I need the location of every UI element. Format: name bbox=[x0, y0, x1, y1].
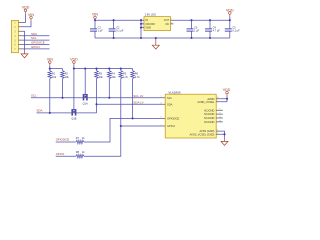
junction VDD stem/Q1B gate bbox=[73, 68, 75, 70]
power symbol VIN (connector pin 2) bbox=[28, 13, 34, 21]
wire ground rail bbox=[95, 37, 230, 39]
resistor R7 bbox=[76, 136, 85, 144]
svg-text:10k: 10k bbox=[112, 75, 117, 79]
resistor R1 bbox=[48, 69, 57, 80]
node GPIO0/CE (series resistor) bbox=[56, 138, 76, 142]
svg-text:SDA LV: SDA LV bbox=[133, 101, 143, 105]
svg-text:GND: GND bbox=[145, 26, 151, 30]
svg-text:R5: R5 bbox=[123, 71, 127, 75]
wire pin2 to VIN bbox=[23, 21, 31, 27]
wire R7 to IC bbox=[84, 118, 160, 142]
junction rail/C2 bbox=[113, 19, 115, 21]
svg-text:2.8V LDO: 2.8V LDO bbox=[145, 13, 156, 17]
wire R3 to SDA LV bbox=[96, 79, 98, 113]
svg-text:GPIO0/CE: GPIO0/CE bbox=[167, 117, 180, 121]
svg-text:6: 6 bbox=[161, 117, 162, 119]
node SCL (level shifter left) bbox=[31, 94, 80, 98]
power symbol VDD (sensor supply) bbox=[223, 88, 231, 96]
svg-text:GPIO1: GPIO1 bbox=[31, 45, 40, 49]
resistor R3 bbox=[95, 69, 104, 80]
svg-text:SCL LV: SCL LV bbox=[133, 94, 143, 98]
junction VDD rail/Q1A gate bbox=[84, 68, 86, 70]
svg-text:SDA: SDA bbox=[31, 32, 37, 36]
wire R8 to IC bbox=[84, 126, 160, 156]
junction VIN rail/R1 bbox=[49, 68, 51, 70]
svg-text:GPIO0/CE: GPIO0/CE bbox=[31, 41, 45, 45]
svg-text:SCL: SCL bbox=[31, 36, 37, 40]
svg-text:Q1A: Q1A bbox=[83, 102, 88, 106]
svg-text:AVDD_VCSEL: AVDD_VCSEL bbox=[197, 100, 215, 104]
svg-text:10k: 10k bbox=[99, 75, 104, 79]
capacitor C5 bbox=[225, 20, 240, 38]
svg-text:IN: IN bbox=[145, 18, 148, 22]
svg-text:1k: 1k bbox=[82, 150, 85, 154]
node SCL LV bbox=[90, 94, 160, 98]
svg-text:3: 3 bbox=[161, 96, 162, 98]
junction SDA LV/R3 bbox=[95, 103, 97, 105]
svg-text:4.7k: 4.7k bbox=[135, 75, 141, 79]
junction AVDD bbox=[226, 98, 228, 100]
svg-text:OUT: OUT bbox=[164, 18, 170, 22]
junction gnd stub bbox=[155, 37, 157, 39]
wire AVSS to ground bbox=[221, 131, 225, 138]
wire VIN to rail bbox=[95, 19, 141, 21]
svg-text:NC: NC bbox=[165, 22, 169, 26]
junction gnd/C4 bbox=[209, 37, 211, 39]
junction GND bbox=[140, 27, 142, 29]
transistor Q1B bbox=[69, 110, 79, 121]
wire Q1A gate bbox=[84, 69, 86, 95]
power symbol VDD (connector pin 1) bbox=[22, 6, 30, 14]
wire R1 to SDA bbox=[49, 79, 51, 113]
svg-text:10k: 10k bbox=[52, 75, 57, 79]
svg-text:NC/GND: NC/GND bbox=[204, 116, 214, 120]
svg-text:1: 1 bbox=[217, 100, 218, 102]
regulator U1 bbox=[141, 13, 174, 31]
node GPIO1 (connector) bbox=[23, 45, 50, 49]
node SCL (connector) bbox=[23, 36, 50, 40]
svg-text:3: 3 bbox=[171, 22, 172, 24]
svg-text:0.1 µF: 0.1 µF bbox=[232, 29, 240, 33]
ground below regulator bbox=[152, 41, 159, 50]
junction rail/C3 bbox=[190, 19, 192, 21]
junction gnd/C3 bbox=[190, 37, 192, 39]
junction ON/OFF bbox=[140, 23, 142, 25]
junction SCL/R2 bbox=[61, 97, 63, 99]
power symbol VDD (regulator output) bbox=[226, 8, 234, 16]
svg-text:VL6180X: VL6180X bbox=[168, 90, 180, 94]
wire R6 to GPIO0 line bbox=[132, 79, 134, 119]
junction VDD rail/R3 bbox=[95, 68, 97, 70]
svg-text:1k: 1k bbox=[82, 136, 85, 140]
svg-text:4.7k: 4.7k bbox=[123, 75, 129, 79]
resistor R8 bbox=[76, 150, 85, 158]
svg-text:SCL: SCL bbox=[31, 94, 37, 98]
svg-text:SCL: SCL bbox=[167, 96, 173, 100]
svg-text:2: 2 bbox=[217, 133, 218, 135]
node SDA (connector) bbox=[23, 32, 50, 36]
ground below sensor bbox=[221, 138, 228, 145]
svg-text:0.1 µF: 0.1 µF bbox=[116, 29, 124, 33]
svg-text:4: 4 bbox=[161, 103, 162, 105]
junction rail/C4 bbox=[209, 19, 211, 21]
svg-text:R4: R4 bbox=[112, 71, 116, 75]
wire R2 to SCL bbox=[62, 79, 64, 98]
svg-text:NC/GND: NC/GND bbox=[204, 120, 214, 124]
svg-text:R7: R7 bbox=[76, 136, 80, 140]
wire R4 to SCL LV bbox=[108, 79, 110, 98]
svg-text:AVSS_VCSEL (GND): AVSS_VCSEL (GND) bbox=[190, 132, 215, 136]
svg-text:GPIO1: GPIO1 bbox=[56, 152, 65, 156]
wire VDD rail bbox=[74, 66, 133, 69]
junction SDA/R1 bbox=[49, 112, 51, 114]
svg-text:Q1B: Q1B bbox=[71, 117, 76, 121]
svg-text:R1: R1 bbox=[52, 71, 56, 75]
capacitor C4 bbox=[205, 20, 220, 38]
node SDA (level shifter left) bbox=[37, 109, 70, 113]
svg-text:ON/OFF: ON/OFF bbox=[145, 22, 155, 26]
wire VDD stem bbox=[229, 16, 231, 20]
junction VDD rail/R4 bbox=[108, 68, 110, 70]
wire pin1 to VDD bbox=[23, 14, 26, 23]
junction GPIO1 line/R5 bbox=[120, 125, 122, 127]
resistor R6 bbox=[131, 69, 141, 80]
node GPIO1 (series resistor) bbox=[56, 152, 76, 156]
power symbol VDD (level shifter) bbox=[70, 57, 78, 65]
junction AVSS_VCSEL bbox=[223, 133, 225, 135]
junction VIN/C1 bbox=[94, 19, 96, 21]
resistor R2 bbox=[61, 69, 70, 80]
wire ground stub bbox=[155, 38, 157, 41]
svg-text:NC/GND: NC/GND bbox=[204, 112, 214, 116]
power symbol VIN (pull-ups) bbox=[47, 57, 53, 65]
svg-text:GPIO0/CE: GPIO0/CE bbox=[56, 138, 70, 142]
svg-text:4.7 µF: 4.7 µF bbox=[213, 29, 221, 33]
capacitor C2 bbox=[109, 20, 124, 38]
wire regulator input tie bbox=[140, 20, 142, 38]
svg-text:R2: R2 bbox=[65, 71, 69, 75]
svg-text:1 µF: 1 µF bbox=[194, 29, 200, 33]
svg-text:SDA: SDA bbox=[37, 109, 43, 113]
svg-text:R3: R3 bbox=[99, 71, 103, 75]
junction rail/C5/VDD bbox=[229, 19, 231, 21]
wire OUT rail bbox=[174, 19, 230, 21]
wire R5 to GPIO1 line bbox=[120, 79, 122, 126]
junction SCL LV/R4 bbox=[108, 97, 110, 99]
svg-text:1 µF: 1 µF bbox=[98, 29, 104, 33]
wire Q1B gate bbox=[73, 69, 75, 110]
svg-text:R6: R6 bbox=[135, 71, 139, 75]
ground below connector bbox=[21, 51, 28, 58]
node SDA LV bbox=[79, 101, 160, 113]
svg-text:NC/GND: NC/GND bbox=[204, 108, 214, 112]
svg-text:5: 5 bbox=[219, 109, 220, 111]
svg-text:11: 11 bbox=[219, 116, 221, 118]
svg-text:12: 12 bbox=[219, 120, 221, 122]
svg-text:8: 8 bbox=[219, 113, 220, 115]
capacitor C3 bbox=[187, 20, 200, 38]
svg-text:SDA: SDA bbox=[167, 102, 173, 106]
junction GPIO0 line/R6 bbox=[132, 117, 134, 119]
junction IN bbox=[140, 19, 142, 21]
power symbol VIN (regulator input) bbox=[92, 13, 98, 21]
resistor R4 bbox=[108, 69, 117, 80]
wire AVDD to VDD bbox=[221, 96, 227, 102]
op-amp U2 VL6180X bbox=[160, 90, 223, 138]
wire VIN rail bbox=[50, 66, 63, 69]
svg-text:7: 7 bbox=[161, 124, 162, 126]
transistor Q1A bbox=[80, 95, 90, 106]
junction gnd/reg bbox=[140, 37, 142, 39]
capacitor C1 bbox=[90, 20, 103, 38]
svg-text:1: 1 bbox=[171, 19, 172, 21]
junction gnd/C2 bbox=[113, 37, 115, 39]
wire pin3 to ground bbox=[23, 31, 25, 51]
junction VDD rail/R5 bbox=[120, 68, 122, 70]
svg-text:9: 9 bbox=[217, 130, 218, 132]
connector J1 bbox=[11, 20, 23, 52]
svg-text:R8: R8 bbox=[76, 150, 80, 154]
node GPIO0/CE (connector) bbox=[23, 41, 50, 45]
svg-text:10: 10 bbox=[217, 97, 219, 99]
svg-text:GPIO1: GPIO1 bbox=[167, 124, 175, 128]
resistor R5 bbox=[119, 69, 129, 80]
svg-text:10k: 10k bbox=[65, 75, 70, 79]
